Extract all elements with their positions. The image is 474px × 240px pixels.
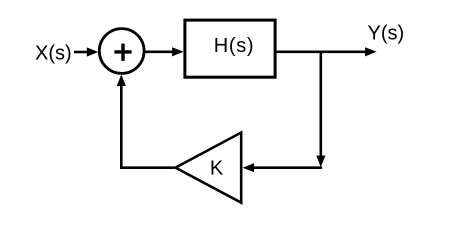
svg-text:H(s): H(s) <box>214 35 255 57</box>
svg-text:K: K <box>210 157 224 179</box>
svg-text:Y(s): Y(s) <box>368 23 405 45</box>
svg-text:X(s): X(s) <box>35 42 72 64</box>
